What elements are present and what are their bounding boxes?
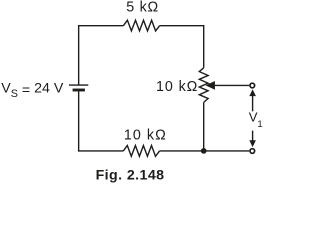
wire wiper to top terminal [213, 84, 250, 86]
wire top-left (battery + to R1) [79, 25, 124, 27]
resistor R1 5 kOhm zigzag [123, 20, 159, 31]
potentiometer wiper arrowhead [206, 81, 215, 90]
terminal bottom (output -) [250, 149, 255, 154]
terminal top (output +) [250, 83, 255, 88]
wire left lower (- lead of battery) [78, 91, 80, 151]
wire V1 arrow upper stem [252, 96, 254, 112]
svg-text:V1: V1 [249, 110, 263, 130]
wire top-right (R1 to right branch) [160, 25, 204, 27]
svg-text:Fig. 2.148: Fig. 2.148 [96, 168, 165, 184]
wire bottom (R2 through node A to bottom terminal) [160, 150, 250, 152]
junction node A dot [201, 148, 207, 154]
svg-text:VS = 24 V: VS = 24 V [1, 81, 64, 100]
svg-text:5 kΩ: 5 kΩ [126, 0, 159, 16]
battery source Vs plates [69, 85, 88, 90]
wire right branch upper (top node to potentiometer) [203, 25, 205, 68]
wire V1 arrow lower stem [252, 131, 254, 141]
potentiometer 10 kOhm zigzag [199, 68, 208, 103]
wire right branch lower (potentiometer to node A) [203, 102, 205, 150]
V1 arrowhead up [249, 89, 256, 96]
wire bottom-left (battery - to R2) [78, 150, 123, 152]
V1 arrowhead down [249, 140, 256, 147]
resistor R2 10 kOhm zigzag [123, 146, 159, 157]
svg-text:10 kΩ: 10 kΩ [156, 79, 198, 95]
wire left upper (+ lead of battery) [78, 25, 80, 85]
svg-text:10 kΩ: 10 kΩ [124, 127, 167, 143]
